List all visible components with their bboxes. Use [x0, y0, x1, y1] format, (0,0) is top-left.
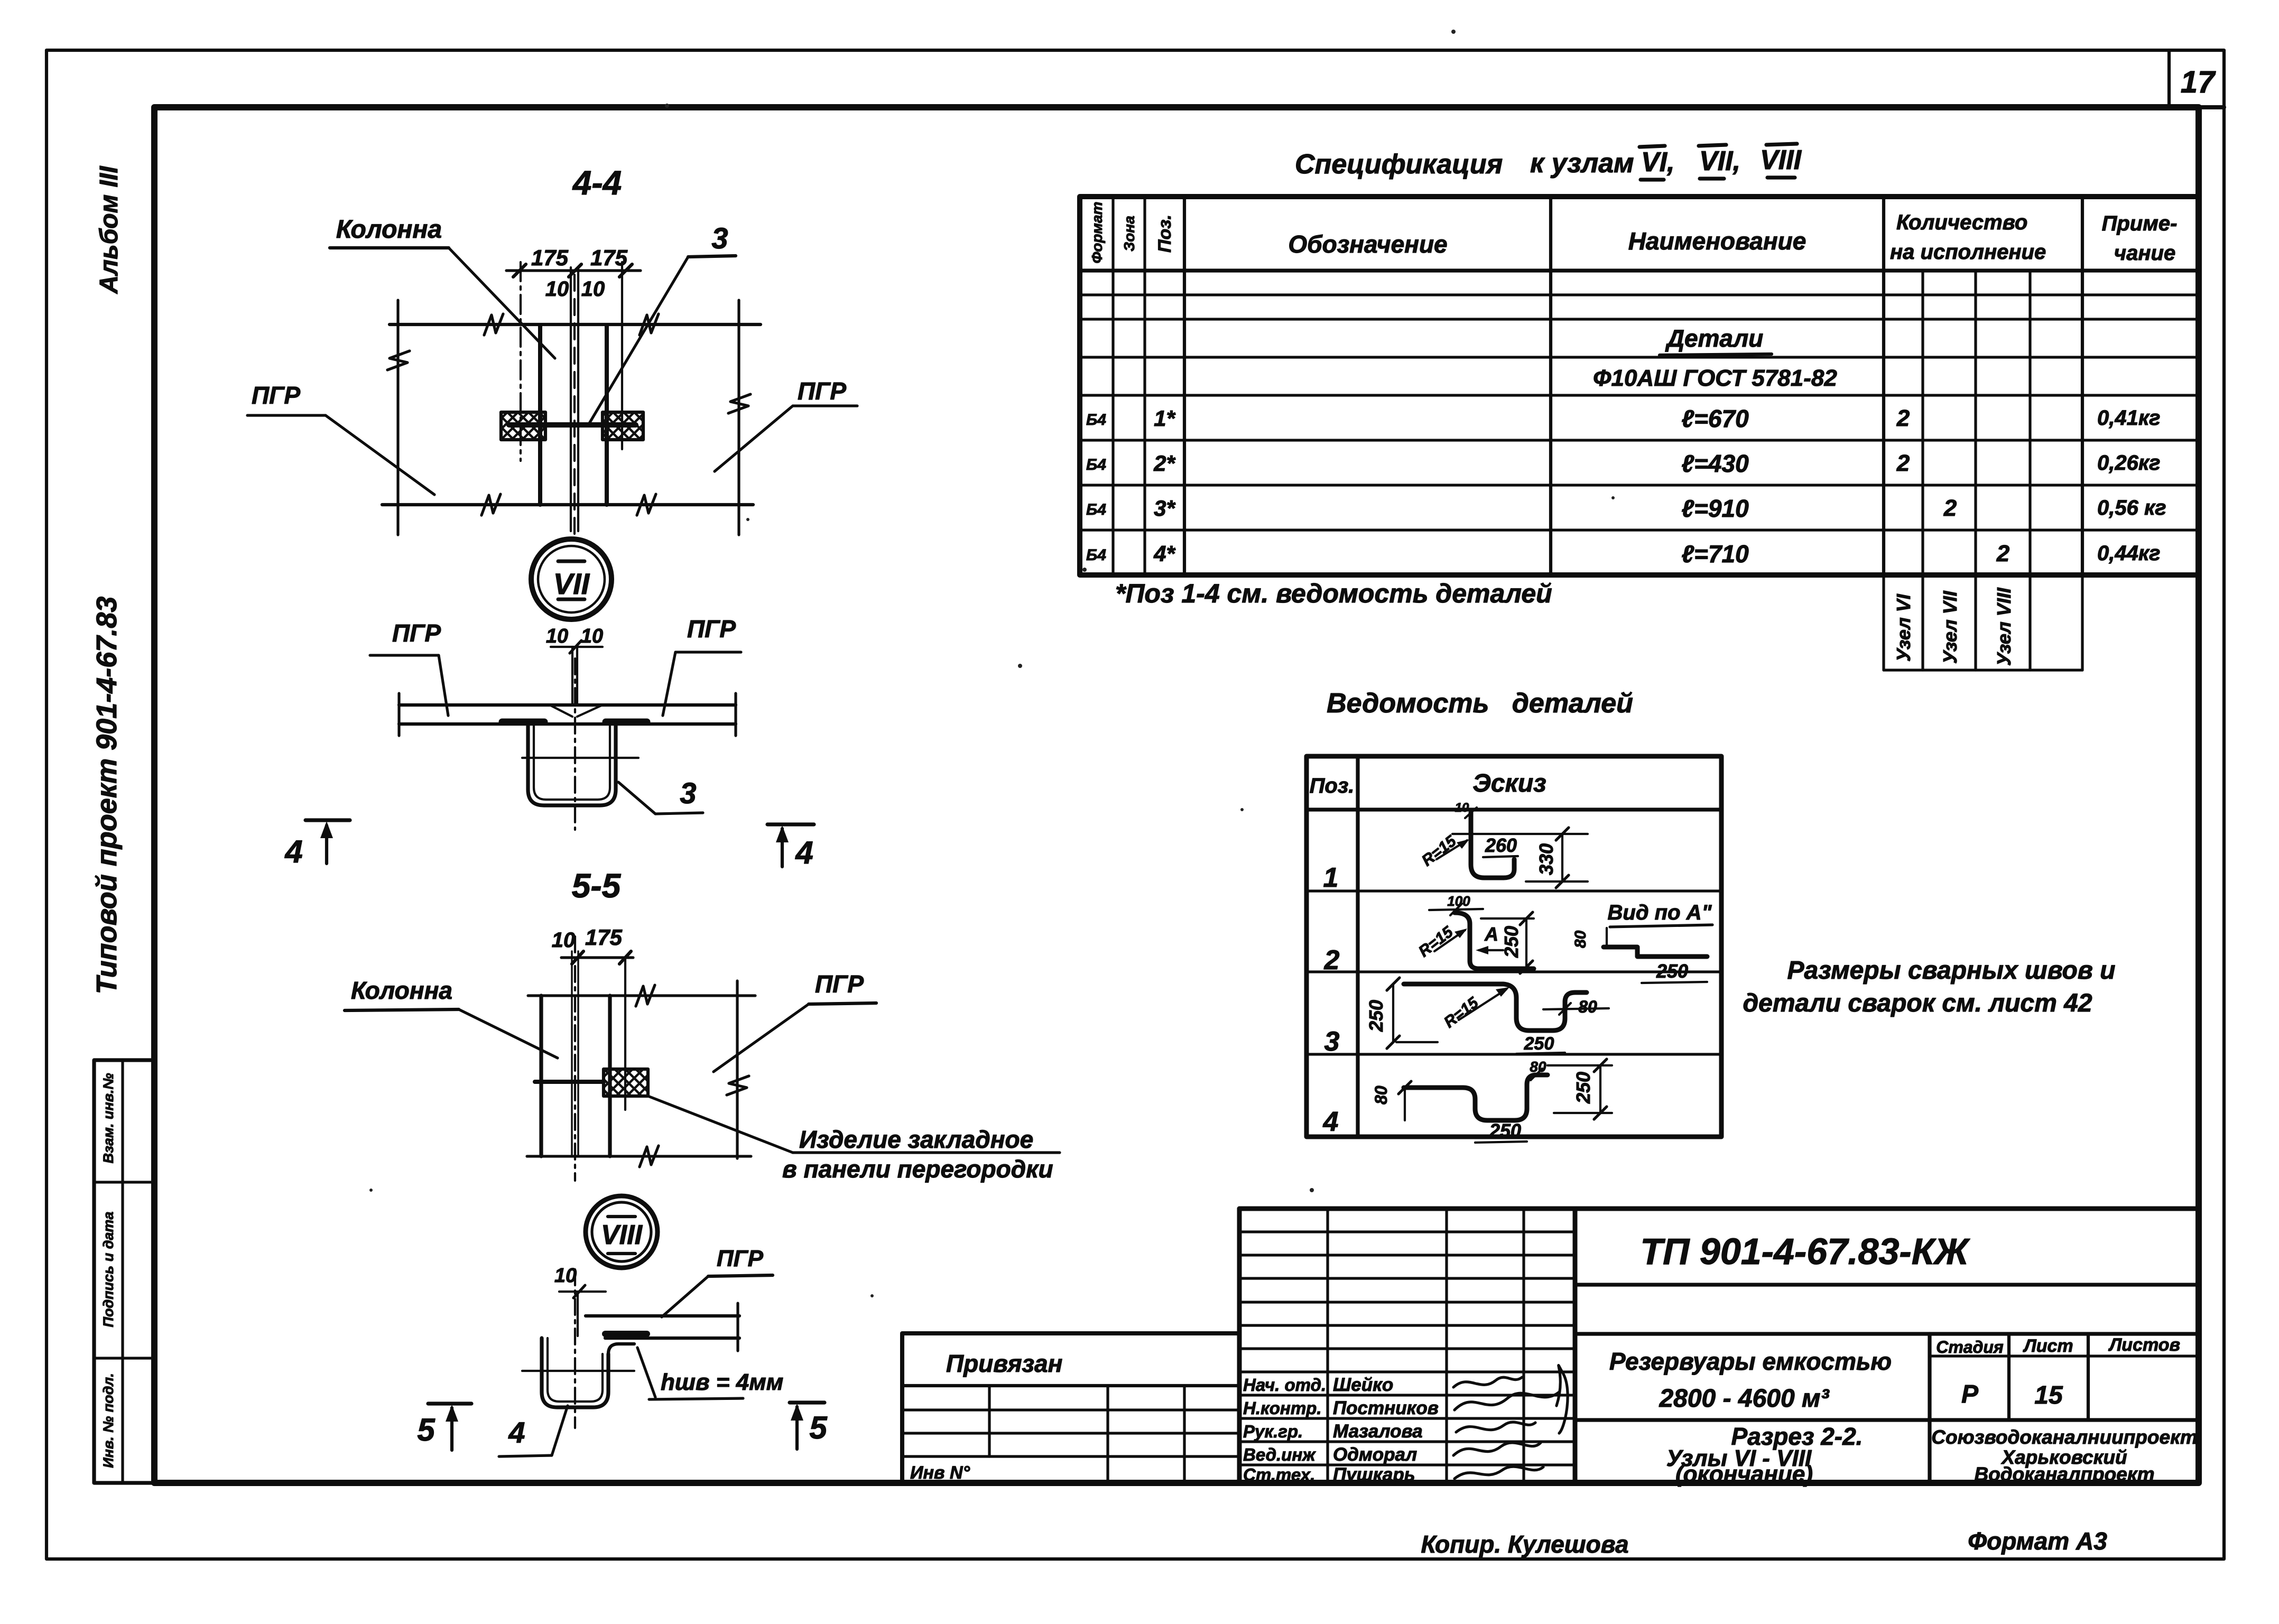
- svg-text:2: 2: [1896, 405, 1910, 431]
- sketch row1 top extension: [1452, 833, 1588, 835]
- leader to embed note: [648, 1096, 793, 1153]
- svg-text:Ф10АШ ГОСТ 5781-82: Ф10АШ ГОСТ 5781-82: [1593, 365, 1837, 391]
- svg-text:Пушкарь: Пушкарь: [1333, 1464, 1415, 1485]
- svg-text:Инв. № подл.: Инв. № подл.: [100, 1373, 116, 1468]
- svg-text:Приме-: Приме-: [2102, 212, 2178, 235]
- anchor rod 5-5: [535, 1080, 604, 1084]
- vedomost row lines: [1307, 808, 1721, 811]
- svg-text:10: 10: [552, 929, 576, 952]
- svg-text:260: 260: [1485, 834, 1517, 856]
- svg-text:Водоканалпроект: Водоканалпроект: [1974, 1463, 2154, 1485]
- svg-text:VIII: VIII: [601, 1220, 643, 1250]
- svg-text:VII: VII: [553, 567, 590, 600]
- svg-text:R=15: R=15: [1419, 832, 1460, 869]
- centerline through channel: [574, 658, 576, 830]
- svg-text:3: 3: [711, 221, 728, 255]
- svg-text:Инв N°: Инв N°: [910, 1463, 970, 1483]
- embed plate right: [603, 412, 643, 440]
- svg-text:ПГР: ПГР: [798, 377, 846, 405]
- svg-text:Привязан: Привязан: [946, 1350, 1062, 1377]
- svg-text:250: 250: [1489, 1120, 1521, 1142]
- svg-text:10: 10: [581, 277, 605, 301]
- node circle VII: [531, 539, 612, 619]
- svg-text:Узел VII: Узел VII: [1939, 590, 1961, 664]
- svg-text:10: 10: [1455, 801, 1469, 815]
- anchor tab left: [502, 719, 544, 726]
- svg-text:чание: чание: [2114, 242, 2175, 265]
- svg-text:Ст.тех.: Ст.тех.: [1243, 1465, 1315, 1484]
- spec table row lines: [1080, 293, 2199, 296]
- sketch row3 profile: [1404, 984, 1587, 1031]
- channel inner: [534, 724, 610, 800]
- svg-text:Ведомость деталей: Ведомость деталей: [1327, 688, 1633, 719]
- svg-text:Поз.: Поз.: [1310, 774, 1355, 797]
- sketch row1 vertical dim 330: [1561, 834, 1563, 881]
- svg-text:Б4: Б4: [1086, 456, 1106, 474]
- spec table column lines: [1111, 197, 1114, 575]
- svg-text:Взам. инв.№: Взам. инв.№: [100, 1073, 116, 1164]
- svg-text:5-5: 5-5: [572, 867, 622, 905]
- panel top line 5-5: [528, 994, 755, 997]
- svg-text:Вид по А": Вид по А": [1608, 901, 1712, 924]
- svg-text:4*: 4*: [1153, 541, 1175, 566]
- svg-text:10: 10: [554, 1265, 577, 1287]
- svg-text:1*: 1*: [1154, 406, 1175, 431]
- left axis dash-dot of 175: [520, 262, 522, 461]
- svg-text:250: 250: [1500, 926, 1522, 958]
- thin line across channel: [522, 757, 638, 759]
- svg-text:2: 2: [1996, 541, 2010, 567]
- embed plate left: [501, 412, 545, 440]
- title block top line: [1239, 1207, 2199, 1211]
- svg-text:3*: 3*: [1154, 496, 1175, 521]
- svg-text:Союзводоканалниипроект: Союзводоканалниипроект: [1931, 1426, 2197, 1448]
- svg-text:ПГР: ПГР: [717, 1246, 764, 1272]
- column left edge: [538, 326, 542, 505]
- svg-text:0,44кг: 0,44кг: [2097, 542, 2160, 565]
- center dash line: [573, 275, 576, 535]
- node VIII panel end tick: [736, 1303, 739, 1351]
- svg-text:Формат: Формат: [1089, 202, 1105, 264]
- svg-text:VI,: VI,: [1641, 147, 1675, 178]
- svg-text:Колонна: Колонна: [351, 977, 452, 1004]
- sketch row1 profile: [1471, 813, 1514, 878]
- scan speckles: [369, 30, 1615, 1297]
- svg-text:3: 3: [680, 776, 696, 810]
- title block main designation box lines: [1575, 1283, 2199, 1286]
- vedomost table border: [1307, 756, 1721, 1137]
- svg-text:Спецификация: Спецификация: [1295, 149, 1503, 180]
- svg-text:4: 4: [284, 834, 302, 869]
- bracket s-curve to tab: [608, 1344, 634, 1354]
- svg-text:в панели перегородки: в панели перегородки: [782, 1155, 1053, 1183]
- svg-text:ТП 901-4-67.83-КЖ: ТП 901-4-67.83-КЖ: [1640, 1231, 1970, 1272]
- svg-text:80: 80: [1572, 930, 1589, 948]
- break mark on top panel line: [484, 314, 503, 335]
- svg-text:80: 80: [1372, 1085, 1391, 1105]
- svg-text:Обозначение: Обозначение: [1288, 230, 1447, 258]
- panel bottom line: [399, 722, 736, 726]
- main drawing frame: [154, 107, 2199, 1483]
- right axis 5-5: [736, 981, 738, 1158]
- svg-text:Резервуары емкостью: Резервуары емкостью: [1609, 1348, 1892, 1375]
- svg-text:Колонна: Колонна: [336, 216, 442, 244]
- svg-text:Формат А3: Формат А3: [1968, 1527, 2107, 1555]
- svg-text:2: 2: [1896, 450, 1910, 476]
- svg-text:ℓ=670: ℓ=670: [1681, 405, 1749, 432]
- sidebar stamp boxes: [94, 1060, 155, 1483]
- left stamp grid border: [1239, 1209, 1575, 1483]
- bracket bucket inner: [548, 1338, 603, 1402]
- sketch row4 profile: [1404, 1075, 1548, 1120]
- svg-text:Нач. отд.: Нач. отд.: [1243, 1375, 1326, 1395]
- svg-text:250: 250: [1656, 960, 1688, 982]
- svg-text:2: 2: [1324, 945, 1340, 976]
- svg-text:250: 250: [1365, 1000, 1387, 1032]
- weld dip at joint: [550, 705, 603, 717]
- svg-text:4: 4: [508, 1416, 525, 1449]
- svg-text:Узел VI: Узел VI: [1893, 593, 1914, 662]
- узел labels extension box: [1882, 575, 1885, 670]
- svg-text:175: 175: [531, 245, 569, 270]
- sketch row2 step profile: [1604, 947, 1707, 957]
- top panel edge line: [390, 323, 761, 326]
- svg-text:*Поз 1-4 см. ведомость дет: *Поз 1-4 см. ведомость деталей: [1115, 579, 1552, 608]
- svg-text:Вед.инж: Вед.инж: [1243, 1445, 1316, 1464]
- svg-text:0,41кг: 0,41кг: [2097, 406, 2160, 430]
- centerline bucket: [574, 1269, 576, 1428]
- stamp grid verticals: [1326, 1209, 1329, 1483]
- svg-text:Б4: Б4: [1086, 501, 1106, 518]
- weld joint double line: [571, 647, 573, 704]
- svg-text:Наименование: Наименование: [1628, 227, 1806, 255]
- svg-text:Одморал: Одморал: [1333, 1444, 1417, 1465]
- svg-text:ℓ=710: ℓ=710: [1681, 540, 1749, 568]
- svg-text:Б4: Б4: [1086, 546, 1106, 564]
- overbars and underbars of node numerals in title: [1639, 146, 1665, 147]
- panel end ticks: [397, 693, 400, 736]
- node circle VIII: [586, 1196, 657, 1268]
- node VIII panel bottom line: [605, 1337, 739, 1340]
- svg-text:4: 4: [1323, 1107, 1339, 1137]
- svg-text:R=15: R=15: [1441, 994, 1483, 1031]
- underlines of Детали: [1660, 354, 1772, 355]
- signature squiggles: [1453, 1377, 1522, 1387]
- svg-text:Зона: Зона: [1121, 216, 1137, 252]
- extension line right of column: [624, 958, 626, 1110]
- svg-text:(окончание): (окончание): [1675, 1461, 1813, 1487]
- stamp grid horizontals: [1239, 1230, 1575, 1233]
- svg-text:детали сварок см. лист 42: детали сварок см. лист 42: [1743, 989, 2092, 1017]
- sheet number box 17: [2167, 50, 2171, 107]
- svg-text:15: 15: [2034, 1381, 2063, 1409]
- svg-text:3: 3: [1324, 1026, 1340, 1057]
- svg-text:17: 17: [2181, 65, 2216, 99]
- svg-text:VII,: VII,: [1699, 146, 1740, 177]
- anchor rod: [509, 422, 636, 428]
- svg-text:Типовой проект 901-4-67.83: Типовой проект 901-4-67.83: [91, 597, 123, 995]
- sketch row4 dim 250 right: [1599, 1065, 1601, 1113]
- svg-text:4: 4: [795, 835, 813, 870]
- svg-text:Шейко: Шейко: [1333, 1375, 1393, 1395]
- svg-text:10: 10: [546, 625, 568, 647]
- svg-text:Размеры сварных швов и: Размеры сварных швов и: [1787, 957, 2116, 985]
- svg-text:ПГР: ПГР: [392, 619, 441, 647]
- svg-text:к узлам: к узлам: [1530, 148, 1634, 179]
- svg-text:Р: Р: [1961, 1380, 1979, 1408]
- spec table outer border: [1080, 197, 2199, 575]
- svg-text:Эскиз: Эскиз: [1472, 769, 1546, 797]
- spec table title Спецификация к узлам VI VII VIII: [1295, 145, 1802, 180]
- sketch row3 dim 250 left: [1392, 984, 1394, 1042]
- right extension line of 175: [621, 262, 623, 449]
- svg-text:Узел VIII: Узел VIII: [1993, 587, 2015, 666]
- bracket tab: [605, 1331, 647, 1337]
- svg-text:250: 250: [1524, 1034, 1554, 1054]
- svg-text:Листов: Листов: [2108, 1335, 2180, 1355]
- svg-text:Рук.гр.: Рук.гр.: [1243, 1422, 1303, 1441]
- sketch row2 dim 250 vertical: [1525, 918, 1527, 967]
- break mark on bottom panel line: [481, 494, 501, 515]
- node VIII panel top line: [586, 1314, 739, 1317]
- svg-text:ПГР: ПГР: [687, 615, 736, 643]
- svg-text:10: 10: [545, 277, 569, 301]
- spec table header bottom line: [1080, 268, 2199, 272]
- svg-text:VIII: VIII: [1760, 145, 1802, 175]
- joint gap lines 5-5: [571, 951, 572, 1156]
- svg-text:2800 - 4600 м³: 2800 - 4600 м³: [1659, 1385, 1830, 1413]
- panel top line: [399, 703, 736, 707]
- svg-text:Альбом III: Альбом III: [95, 165, 123, 294]
- column edges 5-5: [539, 996, 543, 1156]
- svg-text:175: 175: [585, 925, 623, 950]
- column right edge: [605, 326, 609, 505]
- svg-text:А: А: [1484, 923, 1498, 945]
- svg-text:Б4: Б4: [1086, 411, 1106, 429]
- svg-text:ПГР: ПГР: [815, 970, 864, 998]
- svg-text:ПГР: ПГР: [252, 382, 300, 409]
- left axis line of panel: [396, 300, 399, 535]
- sketch row1 bottom extension: [1526, 880, 1588, 883]
- svg-text:Изделие закладное: Изделие закладное: [799, 1126, 1033, 1153]
- embed plate 5-5: [604, 1069, 648, 1096]
- svg-text:1: 1: [1323, 862, 1339, 893]
- vedomost поз column line: [1356, 756, 1359, 1137]
- stamp role labels: [1243, 1375, 1439, 1485]
- svg-text:Поз.: Поз.: [1155, 215, 1175, 253]
- svg-text:Мазалова: Мазалова: [1333, 1421, 1423, 1442]
- svg-text:Лист: Лист: [2022, 1336, 2073, 1356]
- svg-text:Подпись и дата: Подпись и дата: [100, 1212, 116, 1328]
- bracket bucket outer: [542, 1338, 608, 1407]
- svg-text:80: 80: [1578, 997, 1597, 1016]
- svg-text:Копир. Кулешова: Копир. Кулешова: [1421, 1530, 1628, 1558]
- qty sub-column lines extending below: [1921, 271, 1924, 670]
- channel outer: [528, 724, 616, 805]
- svg-text:Стадия: Стадия: [1936, 1338, 2004, 1357]
- svg-text:ℓ=430: ℓ=430: [1681, 450, 1749, 477]
- svg-text:Постников: Постников: [1333, 1398, 1439, 1418]
- svg-text:2*: 2*: [1153, 451, 1175, 476]
- svg-text:0,26кг: 0,26кг: [2097, 451, 2160, 475]
- right axis line of panel: [737, 300, 740, 535]
- centerline 5-5: [574, 936, 576, 1181]
- svg-text:hшв = 4мм: hшв = 4мм: [661, 1369, 783, 1395]
- svg-text:Детали: Детали: [1665, 324, 1764, 352]
- joint gap lines: [570, 267, 572, 531]
- svg-text:R=15: R=15: [1415, 923, 1457, 960]
- svg-text:5: 5: [809, 1410, 828, 1445]
- svg-text:0,56 кг: 0,56 кг: [2097, 496, 2166, 519]
- svg-text:ℓ=910: ℓ=910: [1681, 495, 1749, 522]
- svg-text:250: 250: [1572, 1072, 1594, 1104]
- svg-text:5: 5: [417, 1412, 436, 1447]
- thin line across bucket: [522, 1370, 634, 1372]
- sketch row2 profile: [1455, 913, 1534, 969]
- anchor tab right: [606, 719, 647, 726]
- svg-text:на исполнение: на исполнение: [1890, 240, 2046, 264]
- bottom panel edge line: [382, 503, 753, 506]
- svg-text:330: 330: [1535, 843, 1557, 875]
- svg-text:Количество: Количество: [1896, 211, 2027, 234]
- привязан box: [902, 1333, 1239, 1483]
- svg-text:10: 10: [581, 625, 603, 647]
- svg-text:4-4: 4-4: [572, 164, 622, 202]
- svg-text:2: 2: [1943, 495, 1957, 521]
- svg-text:Н.контр.: Н.контр.: [1243, 1398, 1321, 1418]
- panel bottom line 5-5: [527, 1155, 751, 1157]
